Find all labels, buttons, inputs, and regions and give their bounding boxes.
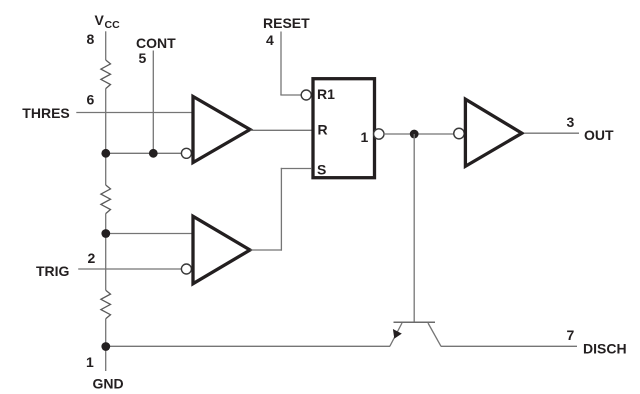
pin 7 label xyxy=(567,327,575,343)
junction: divider/CONT node dot A xyxy=(101,149,110,158)
pin 3 label xyxy=(567,114,575,130)
wire: RESET vertical drop xyxy=(280,32,282,96)
flip-flop U3 box xyxy=(313,79,375,178)
flip-flop input label R1 xyxy=(317,86,335,102)
pin 6 label xyxy=(87,91,95,107)
svg-text:S: S xyxy=(317,162,326,178)
inversion bubble on U1 - input xyxy=(181,148,191,158)
wire: Q1 collector to DISCH pin xyxy=(441,345,577,347)
pin 2 label xyxy=(88,250,96,266)
wire: U2 output right segment xyxy=(251,249,283,251)
junction: divider node dot C xyxy=(101,229,110,238)
wire: divider node to comparator U1 - input xyxy=(106,152,182,154)
wire: THRES to comparator U1 + input xyxy=(76,112,191,114)
resistor R1 (top of divider) xyxy=(101,60,111,89)
inversion bubble on flip-flop output xyxy=(374,129,384,139)
svg-text:R: R xyxy=(318,122,328,138)
svg-text:2: 2 xyxy=(88,250,96,266)
wire: GND line from divider to Q1 emitter xyxy=(106,345,390,347)
pin 5 label xyxy=(139,50,147,66)
pin 1 label xyxy=(86,354,94,370)
svg-text:GND: GND xyxy=(93,376,124,392)
wire: buffer output to OUT pin xyxy=(524,132,579,134)
OUT label xyxy=(584,127,614,143)
wire: divider rail between R2 and R3 xyxy=(105,214,107,291)
wire: U2 output vertical up xyxy=(280,168,282,251)
inversion bubble on buffer U4 input xyxy=(454,128,465,139)
power VCC label xyxy=(95,12,121,31)
svg-text:R1: R1 xyxy=(317,86,335,102)
pin 8 label xyxy=(87,31,95,47)
svg-text:CONT: CONT xyxy=(136,35,176,51)
transistor Q1 emitter xyxy=(390,323,402,346)
wire: RESET horizontal to R1 bubble xyxy=(280,94,301,96)
wire: U1 output to flip-flop R input xyxy=(251,129,312,131)
inversion bubble on U2 - input xyxy=(181,264,191,274)
svg-text:4: 4 xyxy=(266,32,274,48)
THRES label xyxy=(22,105,69,121)
svg-text:8: 8 xyxy=(87,31,95,47)
junction: CONT line dot B xyxy=(149,149,158,158)
svg-text:1: 1 xyxy=(86,354,94,370)
wire: divider rail between R1 and R2 xyxy=(105,89,107,185)
op-amp U2 trigger comparator xyxy=(193,216,250,283)
svg-text:TRIG: TRIG xyxy=(36,263,70,279)
transistor Q1 collector xyxy=(428,323,441,346)
transistor Q1 emitter arrow xyxy=(393,329,402,339)
CONT label xyxy=(136,35,176,51)
wire: CONT vertical to divider node xyxy=(152,51,154,154)
ground GND label xyxy=(93,376,124,392)
junction: output node dot xyxy=(410,130,419,139)
wire: flip-flop output to buffer input xyxy=(384,133,454,135)
flip-flop output label 1 xyxy=(361,129,369,145)
transistor Q1 base bar xyxy=(394,321,436,323)
wire: to flip-flop S input xyxy=(281,168,312,170)
RESET label xyxy=(263,15,310,31)
svg-text:1: 1 xyxy=(361,129,369,145)
DISCH label xyxy=(583,340,627,356)
svg-text:DISCH: DISCH xyxy=(583,340,627,356)
svg-text:6: 6 xyxy=(87,91,95,107)
svg-text:OUT: OUT xyxy=(584,127,614,143)
svg-text:7: 7 xyxy=(567,327,575,343)
wire: rail R3 down to GND pin stub xyxy=(105,319,107,371)
resistor R3 (bottom of divider) xyxy=(101,290,111,319)
inversion bubble on flip-flop R1 input xyxy=(301,90,311,100)
svg-text:CC: CC xyxy=(105,19,121,31)
flip-flop input label R xyxy=(318,122,328,138)
svg-text:THRES: THRES xyxy=(22,105,69,121)
pin 4 label xyxy=(266,32,274,48)
junction: GND node dot xyxy=(101,342,110,351)
wire: VCC stub down to R1 xyxy=(105,31,107,60)
svg-text:3: 3 xyxy=(567,114,575,130)
flip-flop input label S xyxy=(317,162,326,178)
TRIG label xyxy=(36,263,70,279)
svg-text:V: V xyxy=(95,12,105,28)
svg-text:5: 5 xyxy=(139,50,147,66)
op-amp U4 output buffer xyxy=(465,99,522,166)
wire: TRIG to comparator U2 - input xyxy=(78,268,181,270)
wire: output node down to transistor Q1 base xyxy=(413,134,415,322)
resistor R2 (middle of divider) xyxy=(101,185,111,214)
wire: divider node to comparator U2 + input xyxy=(106,233,192,235)
op-amp U1 threshold comparator xyxy=(193,97,250,163)
svg-text:RESET: RESET xyxy=(263,15,310,31)
